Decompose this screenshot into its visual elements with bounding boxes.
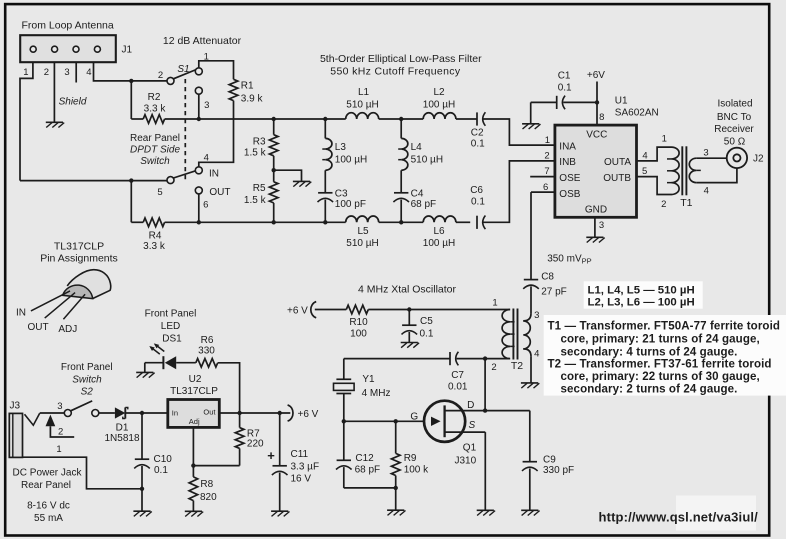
note inductor values — [584, 281, 703, 308]
svg-text:core, primary: 22 turns of 30: core, primary: 22 turns of 30 gauge, — [561, 371, 760, 383]
svg-text:68 pF: 68 pF — [355, 464, 381, 475]
svg-text:G: G — [410, 412, 418, 423]
label R4 — [143, 230, 166, 252]
inductor L1 — [346, 113, 379, 119]
label S1 — [177, 64, 189, 75]
label contact 5 — [157, 187, 162, 198]
svg-text:2: 2 — [158, 70, 163, 81]
inductor L5 — [346, 216, 379, 222]
switch S1 upper blade — [173, 70, 196, 79]
svg-text:4 MHz: 4 MHz — [362, 388, 391, 399]
connector J1 — [20, 35, 132, 62]
svg-text:0.1: 0.1 — [420, 328, 434, 339]
label C7 — [448, 370, 468, 393]
label Front Panel Switch S2 — [61, 362, 113, 397]
svg-text:+6 V: +6 V — [287, 305, 308, 316]
svg-text:3: 3 — [703, 147, 708, 158]
svg-text:100 µH: 100 µH — [423, 238, 455, 249]
regulator U2 TL317CLP box — [168, 400, 220, 428]
label 12 dB Attenuator — [163, 35, 242, 47]
wire pin 3 ground — [594, 217, 596, 237]
svg-text:8: 8 — [599, 112, 604, 123]
label OUT pin — [28, 322, 49, 333]
svg-text:R1: R1 — [241, 80, 254, 91]
svg-text:510 µH: 510 µH — [411, 155, 443, 166]
label C4 — [411, 188, 437, 209]
node bus/contact6 — [197, 220, 201, 224]
wire center tap to ground — [274, 170, 302, 181]
label OSE — [559, 173, 580, 184]
svg-text:TL317CLP: TL317CLP — [54, 240, 104, 252]
package lead ADJ — [63, 294, 85, 319]
ground T2 — [521, 383, 539, 388]
label 50 ohm — [724, 136, 746, 147]
wire R6 to +6V node — [218, 363, 240, 413]
capacitor C12 — [336, 421, 352, 488]
label oscillator title — [358, 283, 457, 295]
node C10 bottom — [140, 487, 144, 491]
wire pin 7 stub — [530, 176, 555, 178]
label U1 — [615, 95, 659, 118]
svg-text:Front Panel: Front Panel — [145, 308, 197, 319]
ground divider — [293, 181, 311, 186]
svg-text:5th-Order Elliptical Low-Pass: 5th-Order Elliptical Low-Pass Filter — [320, 53, 482, 65]
svg-text:1: 1 — [56, 444, 61, 455]
label contact 4 — [204, 153, 209, 164]
svg-text:TL317CLP: TL317CLP — [170, 386, 218, 397]
label contact 2 — [158, 70, 163, 81]
svg-text:68 pF: 68 pF — [411, 199, 437, 210]
wire drain riser — [484, 359, 486, 411]
wire C1 ground drop — [530, 102, 532, 123]
wire J1 pin 1 — [20, 62, 33, 180]
svg-text:OSE: OSE — [559, 173, 580, 184]
capacitor C2 — [477, 112, 485, 126]
label pin 5 — [642, 166, 647, 177]
node drain — [483, 408, 487, 412]
wire contact1 to R1 — [199, 61, 234, 80]
wire drop to R2 bus — [130, 81, 132, 119]
label IN pin — [16, 308, 26, 319]
wire drop to R4 bus — [130, 181, 132, 223]
op-amp U1 SA602AN box — [555, 125, 637, 217]
svg-text:5: 5 — [642, 166, 647, 177]
label Isolated BNC To Receiver — [714, 99, 754, 135]
inductor L3 — [322, 119, 332, 193]
wire R7 to adj — [193, 465, 239, 467]
label L5 — [346, 226, 378, 249]
resistor R10 — [346, 305, 368, 314]
label T2 pin 4 — [534, 348, 539, 359]
wire contact3 to bus — [198, 94, 200, 119]
svg-text:4 MHz Xtal Oscillator: 4 MHz Xtal Oscillator — [358, 283, 457, 295]
switch S1 lower blade — [173, 171, 196, 178]
svg-text:3: 3 — [534, 310, 539, 321]
svg-text:R3: R3 — [253, 136, 266, 147]
label J2 — [753, 153, 764, 164]
label From Loop Antenna — [22, 20, 114, 32]
svg-text:3.3 µF: 3.3 µF — [291, 462, 320, 473]
label filter title — [320, 53, 482, 78]
svg-text:6: 6 — [203, 200, 208, 211]
led DS1 — [145, 356, 196, 369]
jack center pin arrow — [46, 415, 75, 437]
wire top bus — [131, 118, 477, 120]
label Y1 — [362, 374, 391, 399]
svg-text:4: 4 — [204, 153, 209, 164]
svg-text:0.1: 0.1 — [154, 465, 168, 476]
svg-text:J310: J310 — [455, 455, 477, 466]
resistor R3 — [269, 135, 278, 156]
label D1 — [104, 422, 139, 444]
svg-text:SA602AN: SA602AN — [615, 108, 659, 119]
svg-text:L2: L2 — [433, 87, 445, 98]
resistor R7 — [235, 413, 244, 466]
svg-text:GND: GND — [585, 205, 607, 216]
label R7 — [247, 428, 264, 449]
label Rear Panel DPDT Side Switch — [130, 133, 180, 167]
label R10 — [349, 317, 368, 340]
node bus/contact3 — [197, 117, 201, 121]
node bus/R5 — [272, 220, 276, 224]
svg-text:1N5818: 1N5818 — [104, 433, 139, 444]
ground Q1 source — [477, 510, 495, 515]
connector arc +6V out — [288, 405, 293, 421]
label INA — [559, 142, 576, 153]
svg-text:100 pF: 100 pF — [335, 199, 366, 210]
node D1/C10 — [140, 411, 144, 415]
svg-text:OUTB: OUTB — [603, 173, 631, 184]
connector arc osc — [311, 302, 316, 318]
svg-text:8-16 V dc: 8-16 V dc — [27, 501, 70, 512]
label R9 — [404, 453, 429, 475]
capacitor C10 — [134, 413, 150, 489]
svg-text:J1: J1 — [122, 45, 133, 56]
label ADJ pin — [58, 324, 77, 335]
svg-text:330: 330 — [198, 346, 215, 357]
wire R9 to ground — [395, 488, 397, 510]
inductor L4 — [398, 119, 408, 193]
ground C5 — [401, 343, 419, 348]
svg-text:OUT: OUT — [209, 187, 230, 198]
label J3 pin 3 — [57, 401, 62, 412]
label L2 — [423, 87, 455, 111]
J1 pin numbers — [23, 67, 91, 78]
label OUT — [209, 187, 230, 198]
svg-text:Out: Out — [203, 408, 216, 417]
svg-text:L2, L3, L6 — 100 µH: L2, L3, L6 — 100 µH — [588, 297, 695, 309]
resistor R9 — [391, 421, 400, 488]
wire J1 pin 3 stub — [75, 62, 77, 82]
label pin 4 — [642, 150, 647, 161]
svg-text:D1: D1 — [116, 422, 129, 433]
svg-text:J3: J3 — [10, 401, 21, 412]
label pin 8 — [599, 112, 604, 123]
transformer T2 core — [513, 309, 517, 360]
svg-text:T2: T2 — [511, 360, 523, 372]
svg-text:1: 1 — [23, 67, 28, 78]
label L6 — [423, 226, 455, 249]
svg-text:820: 820 — [200, 492, 217, 503]
label J3 pin 1 — [56, 444, 61, 455]
capacitor C1 — [531, 96, 597, 110]
svg-text:D: D — [467, 400, 474, 411]
label contact 3 — [204, 100, 209, 111]
svg-text:IN: IN — [16, 308, 26, 319]
svg-text:2: 2 — [544, 151, 549, 162]
label R6 — [198, 335, 215, 356]
svg-text:R2: R2 — [148, 92, 161, 103]
note url — [599, 496, 759, 531]
wire U2 adj — [192, 427, 194, 465]
svg-text:1: 1 — [662, 133, 667, 144]
node R3/R5 — [272, 168, 276, 172]
svg-text:In: In — [172, 409, 178, 418]
svg-text:Adj: Adj — [189, 417, 200, 426]
wire D1 to U2 — [125, 412, 168, 414]
svg-text:OUT: OUT — [28, 322, 49, 333]
wire contact6 to bus — [198, 194, 200, 222]
label J3 pin 2 — [58, 427, 63, 438]
svg-text:DC Power Jack: DC Power Jack — [13, 468, 83, 479]
svg-text:330 pF: 330 pF — [543, 465, 574, 476]
svg-text:4: 4 — [704, 185, 709, 196]
svg-text:core, primary: 21 turns of 24: core, primary: 21 turns of 24 gauge, — [561, 333, 760, 345]
label 55 mA — [34, 513, 63, 524]
capacitor C11 electrolytic — [272, 413, 288, 511]
svg-text:4: 4 — [534, 348, 539, 359]
wire tip to switch — [40, 412, 64, 414]
label +6V out — [298, 409, 319, 420]
wire drain to C9 — [466, 410, 530, 412]
svg-text:Isolated: Isolated — [717, 99, 752, 110]
label L4 — [411, 142, 443, 166]
connector J2 BNC — [727, 148, 747, 168]
label L1 — [346, 87, 378, 111]
switch S1 lower pole — [167, 177, 174, 184]
svg-text:Pin Assignments: Pin Assignments — [40, 253, 118, 265]
node junction lower row — [129, 178, 133, 182]
svg-text:0.1: 0.1 — [471, 196, 485, 207]
label TL317CLP Pin Assignments — [40, 240, 118, 264]
capacitor C3 — [318, 193, 334, 223]
svg-text:C1: C1 — [558, 70, 571, 81]
label T1 pin 3 — [703, 147, 708, 158]
label G — [410, 412, 418, 423]
wire pin 4 to T1 — [637, 147, 672, 161]
label OUTB — [603, 173, 631, 184]
wire source to ground — [484, 432, 486, 510]
svg-text:550 kHz Cutoff Frequency: 550 kHz Cutoff Frequency — [330, 66, 461, 78]
svg-text:3.9 k: 3.9 k — [241, 94, 264, 105]
label T1 pin 1 — [662, 133, 667, 144]
svg-text:27 pF: 27 pF — [541, 286, 567, 297]
node R10/C5 — [407, 307, 411, 311]
node bus/R3 — [272, 117, 276, 121]
node U2out/C11 — [278, 411, 282, 415]
svg-text:L6: L6 — [433, 226, 445, 237]
svg-text:C12: C12 — [355, 453, 374, 464]
label C11 — [291, 449, 320, 485]
transformer T1 core — [682, 146, 686, 195]
note transformer spec — [544, 315, 786, 396]
wire feedback — [344, 358, 450, 360]
label C6 — [470, 185, 485, 207]
ground C11 — [271, 511, 289, 516]
transformer T1 primary — [667, 147, 679, 194]
svg-text:510 µH: 510 µH — [346, 100, 378, 111]
node bus/C3 — [323, 220, 327, 224]
wire J1 pin 2 shield — [53, 62, 55, 122]
svg-text:VCC: VCC — [586, 130, 607, 141]
svg-text:C8: C8 — [541, 271, 554, 282]
svg-text:L5: L5 — [357, 226, 369, 237]
package TO-92 drawing — [63, 270, 111, 299]
node gate/R9 — [394, 419, 398, 423]
wire +6V to pin 8 — [596, 82, 598, 126]
wire S2 to D1 — [99, 412, 115, 414]
inductor L6 — [423, 216, 456, 222]
svg-text:INB: INB — [559, 157, 576, 168]
svg-text:4: 4 — [642, 150, 647, 161]
svg-text:+: + — [267, 448, 275, 463]
wire pin 5 to T1 — [637, 177, 672, 195]
label L3 — [335, 142, 367, 166]
label C10 — [154, 454, 173, 476]
svg-text:100 µH: 100 µH — [423, 100, 455, 111]
label C11 plus — [267, 448, 275, 463]
svg-text:Shield: Shield — [59, 97, 87, 108]
wire C2 to pin1 — [484, 119, 555, 145]
label R8 — [200, 479, 217, 503]
label J3 — [10, 401, 21, 412]
svg-text:C3: C3 — [335, 188, 348, 199]
label C8 — [541, 271, 567, 297]
label pin 1 — [545, 135, 550, 146]
svg-text:Y1: Y1 — [362, 374, 375, 385]
transformer T1 secondary — [689, 158, 701, 182]
svg-text:C11: C11 — [291, 449, 309, 460]
svg-text:http://www.qsl.net/va3iul/: http://www.qsl.net/va3iul/ — [599, 510, 759, 525]
ground R8 — [185, 511, 203, 516]
svg-text:DS1: DS1 — [162, 334, 182, 345]
label S — [468, 420, 475, 431]
node C7/T2/drain — [483, 356, 487, 360]
svg-text:1: 1 — [492, 297, 497, 308]
wire T1 pin4 to J2 shell — [696, 168, 737, 182]
transistor Q1 J310 — [424, 401, 485, 442]
svg-text:L1, L4, L5 — 510 µH: L1, L4, L5 — 510 µH — [588, 284, 695, 296]
svg-text:0.1: 0.1 — [471, 138, 485, 149]
package lead IN — [31, 291, 70, 311]
wire +6V to R10 — [315, 309, 347, 311]
svg-text:L1: L1 — [358, 87, 370, 98]
transformer T2 secondary — [523, 313, 531, 383]
svg-text:Front Panel: Front Panel — [61, 362, 113, 373]
svg-text:DPDT Side: DPDT Side — [130, 145, 180, 156]
ground shield — [46, 122, 64, 127]
label C9 — [543, 454, 574, 476]
svg-text:3: 3 — [57, 401, 62, 412]
svg-text:7: 7 — [544, 166, 549, 177]
label GND — [585, 205, 607, 216]
resistor R5 — [269, 182, 278, 203]
resistor R8 — [189, 466, 198, 512]
svg-text:1.5 k: 1.5 k — [244, 148, 267, 159]
svg-text:+6V: +6V — [587, 70, 605, 81]
svg-text:Receiver: Receiver — [714, 124, 754, 135]
label T2 pin 2 — [491, 362, 496, 373]
svg-text:OUTA: OUTA — [604, 157, 631, 168]
label R5 — [244, 183, 267, 206]
label contact 1 — [204, 52, 209, 63]
svg-text:220: 220 — [247, 439, 264, 450]
svg-text:L3: L3 — [335, 142, 347, 153]
switch S2 contact — [92, 410, 99, 417]
svg-text:1: 1 — [545, 135, 550, 146]
switch S1 contact 3 — [195, 87, 202, 94]
svg-text:5: 5 — [157, 187, 162, 198]
wire C6 to pin2 — [484, 161, 555, 222]
node adj/R8 — [191, 463, 195, 467]
svg-text:+6 V: +6 V — [298, 409, 319, 420]
label 350 mVpp — [547, 253, 591, 265]
svg-text:LED: LED — [161, 321, 180, 332]
switch S1 contact 1 — [195, 68, 202, 75]
transformer T2 primary — [502, 310, 514, 359]
resistor R6 — [196, 359, 218, 368]
ground oscillator — [387, 510, 405, 515]
label VCC — [586, 130, 607, 141]
wire R10 to T2 — [368, 309, 510, 311]
svg-text:12 dB Attenuator: 12 dB Attenuator — [163, 35, 242, 47]
label Front Panel LED DS1 — [145, 308, 197, 344]
svg-text:C5: C5 — [420, 316, 433, 327]
wire led cathode to ground — [144, 363, 146, 373]
wire R3-R5 — [273, 156, 275, 182]
svg-text:T1 — Transformer. FT50A-77 fer: T1 — Transformer. FT50A-77 ferrite toroi… — [548, 321, 781, 333]
label pin 7 — [544, 166, 549, 177]
svg-text:Rear Panel: Rear Panel — [130, 133, 180, 144]
label IN — [209, 168, 219, 179]
svg-text:2: 2 — [491, 362, 496, 373]
svg-text:C2: C2 — [471, 127, 484, 138]
capacitor C4 — [393, 193, 409, 223]
label Q1 — [455, 442, 477, 466]
wire R5 bottom — [273, 203, 275, 222]
node junction pin4/pole — [129, 79, 133, 83]
svg-text:55 mA: 55 mA — [34, 513, 63, 524]
svg-text:100 k: 100 k — [404, 464, 429, 475]
led arrows — [149, 343, 164, 354]
wire lower pole row — [20, 180, 167, 182]
svg-text:R10: R10 — [349, 317, 368, 328]
label +6V supply — [587, 70, 605, 81]
svg-text:Q1: Q1 — [463, 442, 477, 453]
inductor L2 — [423, 113, 456, 119]
wire R3 top — [273, 119, 275, 135]
svg-text:J2: J2 — [753, 153, 764, 164]
svg-text:3: 3 — [204, 100, 209, 111]
wire R1 to contact 4 — [199, 101, 234, 167]
wire T1 pin3 to J2 — [696, 157, 727, 159]
svg-text:U1: U1 — [615, 95, 628, 106]
label R1 — [241, 80, 264, 104]
capacitor C7 — [450, 352, 458, 366]
switch S2 pole — [64, 410, 71, 417]
svg-text:S2: S2 — [81, 386, 94, 397]
node Y1/gate — [342, 419, 346, 423]
